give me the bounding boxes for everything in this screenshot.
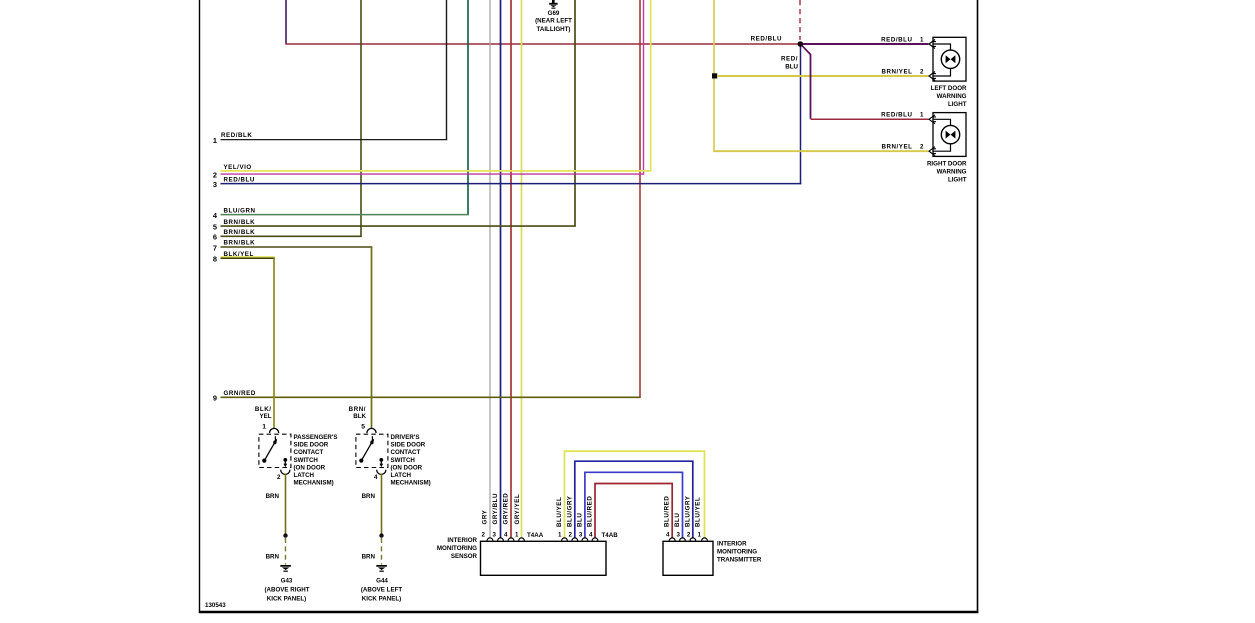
ground G69 stub wire <box>552 0 555 3</box>
passenger switch contact arrow down <box>284 461 286 466</box>
wire BRN/BLK vertical from top at x=361 <box>360 0 362 237</box>
driver switch mid dot <box>370 441 373 444</box>
sensor pin group2 3 connector arc <box>582 538 588 541</box>
svg-text:LATCH: LATCH <box>391 472 412 479</box>
svg-text:8: 8 <box>213 255 217 264</box>
svg-text:CONTACT: CONTACT <box>294 449 324 456</box>
svg-text:BRN: BRN <box>266 493 280 500</box>
svg-text:6: 6 <box>213 233 217 242</box>
svg-text:GRY/BLU: GRY/BLU <box>492 493 499 524</box>
svg-text:1: 1 <box>262 424 266 431</box>
wire row 9 GRN/RED horizontal (dark yellow) <box>221 396 641 398</box>
wire GRY/YEL vertical from top to sensor pin 1 <box>521 0 523 538</box>
driver switch lever arrow <box>362 443 372 461</box>
passenger switch lever arrow <box>265 443 275 461</box>
svg-text:1: 1 <box>515 532 519 539</box>
svg-text:G44: G44 <box>376 578 388 585</box>
wire RED/BLK vertical from top at x=446.5 (black) <box>446 0 448 140</box>
svg-text:T4AA: T4AA <box>527 532 544 539</box>
wire GRY vertical from top to sensor pin 2 <box>489 0 491 538</box>
passenger switch contact arrowhead down <box>283 464 287 468</box>
svg-text:LIGHT: LIGHT <box>948 101 967 108</box>
interior monitoring transmitter box <box>663 541 713 575</box>
wire RED/BLU navy vertical x=800.5 down from junction <box>800 45 802 184</box>
passenger switch arrow tip stroke <box>274 436 276 440</box>
wire BRN/BLK vertical from top at x=575 <box>574 0 576 226</box>
svg-text:4: 4 <box>589 532 593 539</box>
wire BLU/GRY U-loop sensor pin2 to transmitter pin2 <box>575 461 693 538</box>
svg-text:2: 2 <box>213 170 217 179</box>
svg-text:BLK/YEL: BLK/YEL <box>224 251 254 258</box>
svg-text:BRN: BRN <box>362 493 376 500</box>
right door warning light connector arrow pin 1 <box>929 115 936 124</box>
svg-text:5: 5 <box>361 424 365 431</box>
svg-text:1: 1 <box>920 36 924 43</box>
left door warning light box <box>933 37 966 81</box>
ground G43 symbol <box>280 565 291 572</box>
svg-text:SWITCH: SWITCH <box>294 457 319 464</box>
ground G44 symbol <box>376 565 387 572</box>
right door warning light connector arrow pin 2 <box>929 147 936 156</box>
svg-text:1: 1 <box>213 136 217 145</box>
driver switch contact arrowhead down <box>379 464 383 468</box>
svg-text:RED/: RED/ <box>781 56 798 63</box>
svg-text:GRN/RED: GRN/RED <box>224 390 256 397</box>
svg-text:3: 3 <box>213 180 217 189</box>
svg-text:(ABOVE RIGHT: (ABOVE RIGHT <box>264 587 309 594</box>
svg-text:BRN/BLK: BRN/BLK <box>224 219 256 226</box>
svg-text:YEL: YEL <box>259 413 271 420</box>
svg-text:LATCH: LATCH <box>294 472 315 479</box>
svg-text:SWITCH: SWITCH <box>391 457 416 464</box>
svg-text:BLU/RED: BLU/RED <box>664 496 671 527</box>
svg-text:G43: G43 <box>281 578 293 585</box>
passenger switch mid dot <box>273 441 276 444</box>
wire BRN/BLK vertical down to driver switch pin 5 <box>371 247 373 429</box>
passenger switch pin 2 connector arc <box>281 470 290 475</box>
svg-text:GRY/RED: GRY/RED <box>502 493 509 525</box>
svg-text:RED/BLU: RED/BLU <box>881 112 912 119</box>
svg-text:(ABOVE LEFT: (ABOVE LEFT <box>361 587 402 594</box>
svg-text:BRN/YEL: BRN/YEL <box>881 144 912 151</box>
wire YEL/VIO yellow vertical at x=650.7 <box>650 0 652 171</box>
svg-text:BLU: BLU <box>785 64 798 71</box>
wire BRN dashed to ground G43 <box>285 538 287 565</box>
wire BLK/YEL vertical down to passenger switch pin 1 <box>273 258 275 429</box>
svg-text:LEFT DOOR: LEFT DOOR <box>931 85 967 92</box>
svg-text:(ON DOOR: (ON DOOR <box>391 464 423 471</box>
wire row 8 BLK/YEL yellow halo <box>221 256 275 258</box>
sensor pin 4 connector arc <box>508 538 514 541</box>
svg-text:LIGHT: LIGHT <box>948 176 967 183</box>
svg-text:MECHANISM): MECHANISM) <box>294 480 334 487</box>
left door warning light connector arrow pin 1 <box>929 40 936 49</box>
transmitter pin 3 connector arc <box>680 538 686 541</box>
wire BRN/YEL horizontal to left door pin 2 <box>717 75 929 77</box>
wire RED/BLU long horizontal y=44 (red) <box>285 43 799 45</box>
svg-text:INTERIOR: INTERIOR <box>447 537 477 544</box>
junction dot driver BRN <box>379 533 383 537</box>
sensor pin group2 2 connector arc <box>572 538 578 541</box>
sensor pin group2 1 connector arc <box>562 538 568 541</box>
svg-text:2: 2 <box>482 532 486 539</box>
passenger switch pivot dot <box>262 459 266 463</box>
svg-text:WARNING: WARNING <box>937 168 967 175</box>
svg-text:1: 1 <box>920 112 924 119</box>
driver switch arrow tip stroke <box>371 436 373 440</box>
left door warning light connector arrow pin 2 <box>929 72 936 81</box>
wire RED/BLU purple vertical x=810.5 <box>810 54 812 119</box>
junction dot passenger BRN <box>283 533 287 537</box>
svg-text:KICK PANEL): KICK PANEL) <box>267 596 306 603</box>
interior monitoring sensor box <box>481 541 607 575</box>
svg-text:2: 2 <box>277 474 281 481</box>
wire row 2 YEL/VIO yellow horizontal <box>221 170 652 172</box>
svg-text:TRANSMITTER: TRANSMITTER <box>717 557 762 564</box>
svg-text:RED/BLU: RED/BLU <box>881 36 912 43</box>
svg-text:BLU/GRN: BLU/GRN <box>224 207 256 214</box>
svg-text:5: 5 <box>213 222 217 231</box>
sensor pin 3 connector arc <box>498 538 504 541</box>
left door warning light internal wiring <box>933 44 951 76</box>
svg-text:KICK PANEL): KICK PANEL) <box>362 596 401 603</box>
driver switch contact dot pin4 <box>379 458 383 462</box>
wire row 4 BLU/GRN horizontal (green) <box>221 214 469 216</box>
junction square on BRN/YEL <box>712 73 717 78</box>
wire BLU/GRN vertical from top at x=468 (teal) <box>467 0 469 215</box>
transmitter pin 1 connector arc <box>702 538 708 541</box>
svg-text:MECHANISM): MECHANISM) <box>391 480 431 487</box>
svg-text:BLU/YEL: BLU/YEL <box>695 497 702 527</box>
wire row 5 BRN/BLK horizontal <box>221 225 576 227</box>
wire BLU/YEL U-loop sensor pin1 to transmitter pin1 <box>565 451 705 538</box>
svg-text:1: 1 <box>698 532 702 539</box>
svg-text:DRIVER'S: DRIVER'S <box>391 434 420 441</box>
driver switch pin 4 connector arc <box>377 470 386 475</box>
sensor pin 1 connector arc <box>519 538 525 541</box>
diagram frame left border <box>199 0 201 613</box>
right door warning light bulb filament left <box>946 131 951 139</box>
driver switch lever arrowhead <box>370 439 374 444</box>
driver switch contact arrow down <box>380 461 382 466</box>
wire row 2 YEL/VIO violet horizontal <box>221 173 645 175</box>
svg-text:1: 1 <box>558 532 562 539</box>
svg-text:BRN/BLK: BRN/BLK <box>224 240 256 247</box>
svg-text:SENSOR: SENSOR <box>451 553 478 560</box>
svg-text:2: 2 <box>569 532 573 539</box>
svg-text:BLK: BLK <box>353 413 366 420</box>
svg-text:GRY/YEL: GRY/YEL <box>514 494 521 525</box>
svg-text:2: 2 <box>920 68 924 75</box>
svg-text:PASSENGER'S: PASSENGER'S <box>294 434 338 441</box>
wire BRN/YEL vertical from top at x=714 <box>713 0 715 152</box>
wire BLU/RED U-loop sensor pin4 to transmitter pin4 <box>595 484 672 539</box>
wire BRN dashed to ground G44 <box>381 538 383 565</box>
svg-text:CONTACT: CONTACT <box>391 449 421 456</box>
svg-text:RED/BLU: RED/BLU <box>751 35 782 42</box>
svg-text:YEL/VIO: YEL/VIO <box>224 164 252 171</box>
wire row 6 BRN/BLK horizontal <box>221 235 362 237</box>
svg-text:SIDE DOOR: SIDE DOOR <box>391 442 426 449</box>
transmitter pin 4 connector arc <box>669 538 675 541</box>
svg-text:BRN: BRN <box>266 554 280 561</box>
wire RED/BLU purple horizontal to left door pin 1 <box>803 43 929 45</box>
sensor pin group2 4 connector arc <box>592 538 598 541</box>
svg-text:MONITORING: MONITORING <box>717 549 757 556</box>
svg-text:BLU/RED: BLU/RED <box>587 496 594 527</box>
svg-text:T4AB: T4AB <box>602 532 619 539</box>
svg-text:G69: G69 <box>548 10 560 17</box>
svg-text:7: 7 <box>213 243 217 252</box>
transmitter pin 2 connector arc <box>690 538 696 541</box>
wire row 3 RED/BLU horizontal (navy) <box>221 183 802 185</box>
right door warning light box <box>933 113 966 157</box>
wire BRN/YEL horizontal to right door pin 2 <box>713 150 928 152</box>
svg-text:BLU/GRY: BLU/GRY <box>684 495 691 527</box>
svg-text:RED/BLK: RED/BLK <box>221 132 252 139</box>
right door warning light internal wiring <box>933 119 951 151</box>
passenger switch pin 1 connector arc <box>270 428 279 433</box>
wire RED/BLU red horizontal to right door pin 1 <box>811 118 929 120</box>
wire GRY/RED vertical from top to sensor pin 4 <box>510 0 512 538</box>
left door warning light bulb circle <box>941 50 959 68</box>
driver switch pin 5 connector arc <box>367 428 376 433</box>
svg-text:BLK/: BLK/ <box>255 406 272 413</box>
svg-text:INTERIOR: INTERIOR <box>717 541 747 548</box>
junction dot RED/BLU node <box>798 41 804 47</box>
wire BRN below driver switch <box>381 474 383 536</box>
driver switch pivot dot <box>359 459 363 463</box>
svg-text:3: 3 <box>493 532 497 539</box>
wire row 7 BRN/BLK horizontal <box>221 246 373 248</box>
svg-text:SIDE DOOR: SIDE DOOR <box>294 442 329 449</box>
wire RED/BLU vertical from top at x=286 (purple) <box>285 0 287 44</box>
right door warning light bulb filament right <box>951 131 956 139</box>
wire BRN below passenger switch <box>285 474 287 536</box>
svg-text:3: 3 <box>677 532 681 539</box>
diagram frame right border <box>977 0 979 613</box>
svg-text:GRY: GRY <box>482 509 489 524</box>
svg-text:(NEAR LEFT: (NEAR LEFT <box>535 18 572 25</box>
right door warning light bulb circle <box>941 125 959 143</box>
svg-text:2: 2 <box>920 144 924 151</box>
wire GRN/RED vertical from top at x=640 (red) <box>639 0 641 398</box>
wire dashed RED/BLU vertical above junction <box>799 0 801 40</box>
svg-text:2: 2 <box>687 532 691 539</box>
svg-text:TAILLIGHT): TAILLIGHT) <box>537 26 571 33</box>
diagram frame bottom border <box>199 611 979 613</box>
svg-text:WARNING: WARNING <box>937 93 967 100</box>
left door warning light bulb filament right <box>951 55 956 63</box>
svg-text:4: 4 <box>213 211 218 220</box>
passenger switch lever arrowhead <box>273 439 277 444</box>
ground G69 symbol <box>549 3 557 9</box>
svg-text:BRN/BLK: BRN/BLK <box>224 229 256 236</box>
passenger switch contact dot pin2 <box>283 458 287 462</box>
svg-text:BLU/YEL: BLU/YEL <box>556 497 563 527</box>
svg-text:(ON DOOR: (ON DOOR <box>294 464 326 471</box>
wire BLU U-loop sensor pin3 to transmitter pin3 <box>585 472 683 538</box>
svg-text:BLU/GRY: BLU/GRY <box>566 495 573 527</box>
svg-text:130543: 130543 <box>205 602 226 609</box>
wire YEL/VIO violet vertical at x=643.5 <box>643 0 645 174</box>
wire GRY/BLU vertical from top to sensor pin 3 <box>500 0 502 538</box>
svg-text:3: 3 <box>579 532 583 539</box>
svg-text:BRN: BRN <box>362 554 376 561</box>
wire row 8 BLK/YEL horizontal <box>221 257 275 259</box>
sensor pin 2 connector arc <box>487 538 493 541</box>
svg-text:RED/BLU: RED/BLU <box>224 176 255 183</box>
svg-text:BRN/YEL: BRN/YEL <box>881 68 912 75</box>
svg-text:BLU: BLU <box>576 513 583 527</box>
svg-text:4: 4 <box>504 532 508 539</box>
svg-text:4: 4 <box>666 532 670 539</box>
wire RED/BLU purple diagonal from junction <box>802 46 810 55</box>
svg-text:RIGHT DOOR: RIGHT DOOR <box>927 160 967 167</box>
driver switch dashed box <box>356 434 388 467</box>
svg-text:9: 9 <box>213 394 217 403</box>
svg-text:MONITORING: MONITORING <box>437 545 477 552</box>
svg-text:BLU: BLU <box>674 513 681 527</box>
svg-text:4: 4 <box>374 474 378 481</box>
wire row 1 RED/BLK horizontal <box>221 139 448 141</box>
left door warning light bulb filament <box>946 55 951 63</box>
svg-text:BRN/: BRN/ <box>349 406 366 413</box>
passenger switch dashed box <box>259 434 291 467</box>
